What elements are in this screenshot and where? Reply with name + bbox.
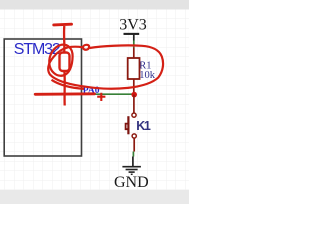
annotation: red wire bottom — [63, 71, 66, 106]
switch K1 top contact — [132, 113, 136, 117]
svg-text:K1: K1 — [136, 119, 151, 133]
switch K1 actuator — [127, 116, 129, 134]
switch K1 bottom contact — [132, 134, 136, 138]
annotation: red overlap stroke bottom-left of ellipse — [52, 80, 85, 89]
annotation: red power bar — [54, 23, 72, 27]
svg-text:3V3: 3V3 — [119, 16, 147, 33]
annotation: red loop around resistor sketch — [49, 45, 72, 76]
bottom band — [0, 190, 189, 204]
sheet background — [0, 0, 189, 204]
power stem — [133, 35, 135, 41]
svg-text:GND: GND — [114, 174, 149, 191]
power bar 3V3 — [124, 33, 140, 35]
IC block STM32 (sheet symbol rectangle) — [4, 39, 81, 156]
wire junction to K1 — [133, 95, 135, 113]
wire K1 to GND — [132, 152, 134, 157]
pin R1 top — [133, 48, 135, 59]
junction node PA0 — [131, 92, 137, 98]
svg-text:10k: 10k — [139, 70, 156, 81]
wire 3V3 to R1 — [133, 41, 135, 48]
ground GND — [122, 157, 140, 175]
wire PA0 horizontal — [82, 93, 134, 95]
top toolbar band — [0, 0, 189, 10]
annotation: red wire top — [63, 26, 66, 53]
annotation: red ellipse around pull-up — [48, 45, 163, 89]
annotation: red plus cursor on PA0 — [97, 93, 105, 101]
resistor R1 body — [128, 58, 140, 79]
pin R1 bottom — [133, 79, 135, 94]
pin K1 bottom — [133, 138, 135, 151]
switch K1 button notch — [126, 124, 129, 130]
annotation: red resistor box — [60, 53, 70, 72]
annotation: red horizontal line PA0 — [35, 92, 94, 95]
